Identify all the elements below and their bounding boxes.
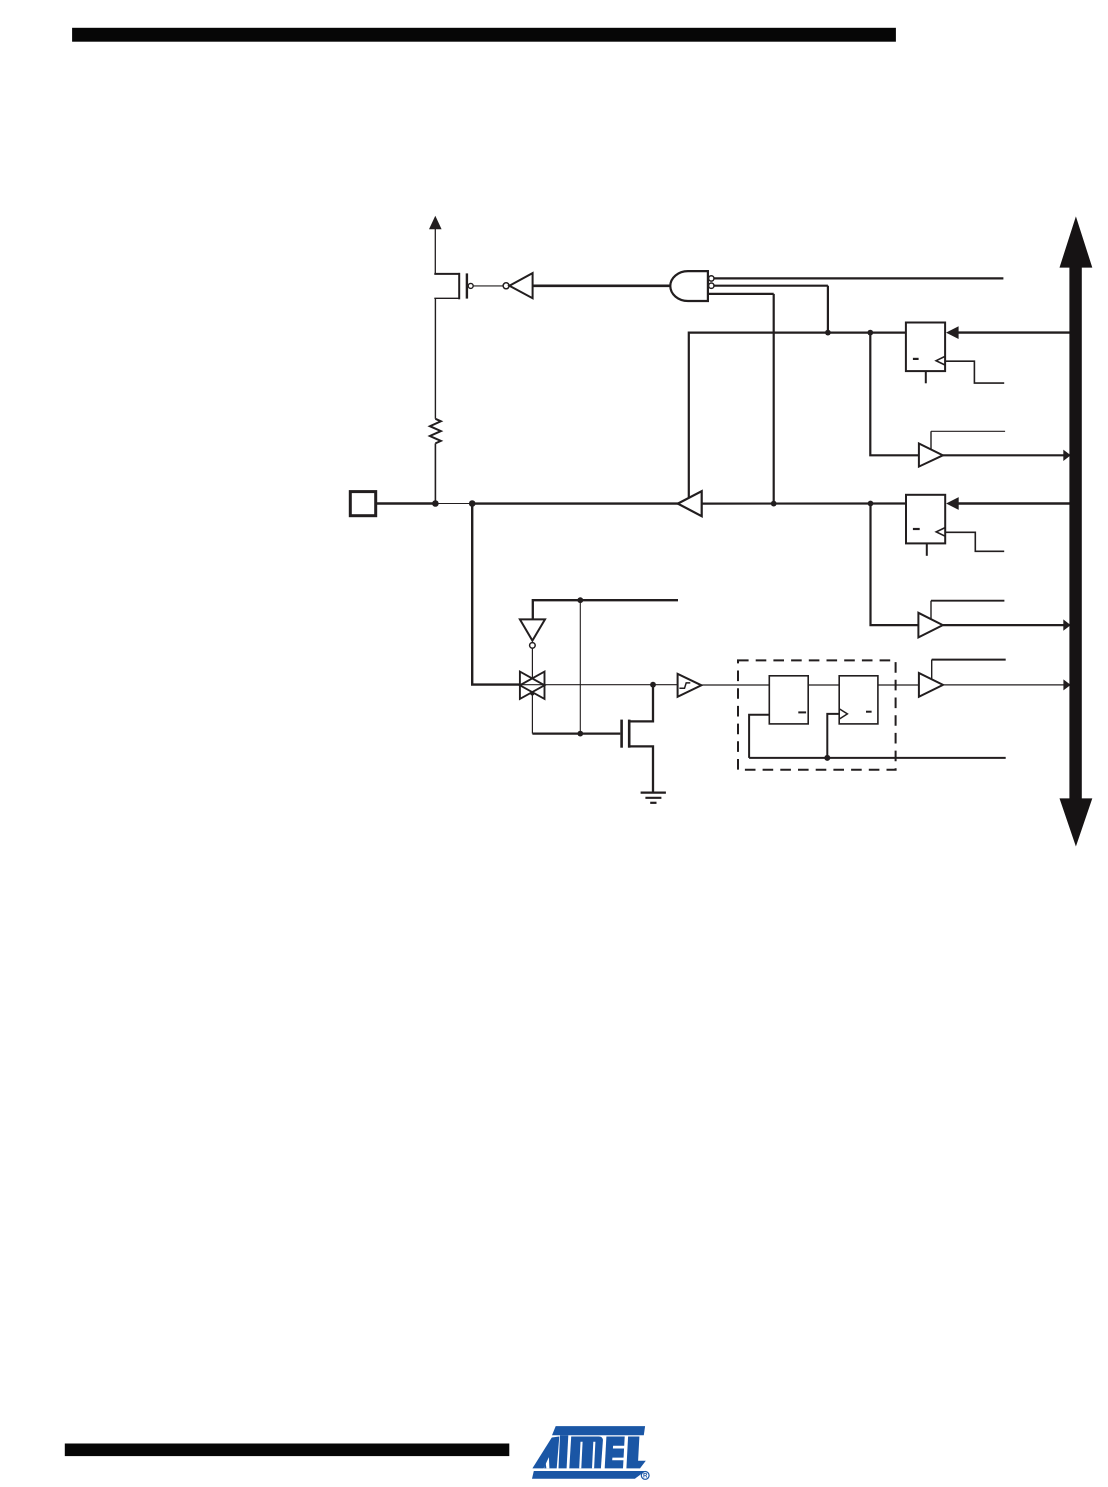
analog switch transmission gate <box>520 672 545 699</box>
data bus <box>1060 216 1093 846</box>
PORTxn Q-bar mark <box>913 528 920 530</box>
resistor R1 pull-up <box>430 419 441 444</box>
inverter U4 sleep <box>520 619 545 648</box>
L2 clock wedge <box>839 709 847 719</box>
power rail VCC arrow <box>429 216 442 230</box>
Atmel logo <box>532 1426 649 1480</box>
wire node B down to analog switch row <box>472 504 519 685</box>
wire NAND input 2 vertical <box>827 286 829 333</box>
wire NMOS gate row horizontal <box>532 732 620 734</box>
wire VCC to pull-up PMOS source <box>434 229 436 275</box>
wire analog switch to schmitt U5 <box>521 684 678 686</box>
wire U4 to analog switch <box>531 648 533 678</box>
schmitt trigger U5 <box>678 674 702 697</box>
wire analog switch to gate row <box>531 692 533 734</box>
wire L2 to read buffer U8 <box>878 684 919 686</box>
wire DDxn row: U3 enable to DD register D <box>689 333 906 498</box>
wire clk I/O <box>749 757 1006 759</box>
wire Q1 gate to inverter U2 <box>473 285 503 287</box>
wire NAND input 3 vertical <box>773 294 775 504</box>
junction G sleep row <box>577 597 583 603</box>
synchronizer boundary dashed box <box>738 660 896 769</box>
junction H NMOS gate row <box>577 731 583 737</box>
arrow U8 into data bus <box>1063 679 1070 690</box>
wire WDx DDxn clock <box>945 361 1004 383</box>
junction C PORT row to NAND input 3 <box>771 501 777 507</box>
junction D PORT row to read buffer U7 <box>868 501 874 507</box>
wire RPx stub <box>932 659 1006 661</box>
transistor Q1 pull-up PMOS <box>434 273 473 299</box>
latch L1 <box>769 676 808 724</box>
wire RRx stub <box>931 600 1004 602</box>
wire pad to node A <box>376 502 436 504</box>
read buffer U6 RDx <box>919 444 943 467</box>
arrow U6 into data bus <box>1063 450 1070 461</box>
wire RDx stub <box>931 430 1005 432</box>
wire U6 to data bus <box>943 454 1064 456</box>
register PORTxn <box>906 495 945 544</box>
wire PORT row down to read buffer U7 <box>871 504 919 626</box>
wire NAND input 3 horizontal <box>708 293 774 295</box>
wire SLEEP row <box>533 600 678 619</box>
PORTxn clock wedge <box>936 528 945 537</box>
arrow data bus to PORTxn D <box>946 497 959 510</box>
wire NAND input 2 horizontal <box>714 285 828 287</box>
junction F DD row to read buffer U6 <box>867 330 873 336</box>
svg-text:R: R <box>643 1473 648 1480</box>
read buffer U8 RPx <box>919 673 943 697</box>
DDxn reset stub <box>925 371 927 383</box>
L1 Q-bar mark <box>798 711 806 713</box>
L2 clock input wire <box>827 714 839 758</box>
wire R1 to pin node <box>434 443 436 503</box>
wire RRx enable vertical <box>930 601 932 620</box>
PORTxn reset stub <box>926 544 928 556</box>
wire Q1 drain to resistor R1 <box>434 298 436 419</box>
wire data bus to PORTxn <box>958 502 1070 504</box>
tri-state output driver U3 <box>678 491 702 516</box>
ground <box>641 793 666 803</box>
arrow data bus to DDxn D <box>946 326 959 339</box>
wire U2 input from NAND U1 output <box>533 284 671 287</box>
wire RDx enable vertical <box>930 431 932 450</box>
pad Pxn <box>350 492 375 516</box>
wire PUD NAND input 1 <box>714 277 1003 279</box>
junction I NMOS drain tap <box>650 682 656 688</box>
junction J clk line <box>824 755 830 761</box>
register DDxn <box>906 323 945 372</box>
wire U3 input from PORTxn row <box>702 502 906 504</box>
NAND gate U1 pull-up enable <box>670 271 714 301</box>
transistor Q2 NMOS <box>622 685 653 792</box>
DDxn clock wedge <box>936 356 945 365</box>
L1 clock input wire <box>749 715 769 758</box>
wire L1 to L2 <box>808 684 839 686</box>
wire U5 to synchronizer latch L1 <box>701 684 769 686</box>
wire DD row down to read buffer U6 <box>870 333 919 456</box>
junction node B <box>469 500 476 507</box>
wire node B to output driver U3 <box>472 502 678 504</box>
arrow U7 into data bus <box>1063 619 1070 630</box>
wire node A to node B <box>435 503 472 505</box>
latch L2 <box>839 676 878 724</box>
wire RPx enable vertical <box>931 660 933 680</box>
wire sleep to NMOS gate row <box>579 600 581 733</box>
wire WPx PORTxn clock <box>945 532 1004 551</box>
junction node A <box>432 500 439 507</box>
junction E DD row to NAND input 2 <box>825 330 831 336</box>
wire U8 to data bus <box>943 684 1064 686</box>
DDxn Q-bar mark <box>913 358 919 360</box>
inverter U2 pull-up driver <box>503 273 532 298</box>
wire U7 to data bus <box>943 624 1064 626</box>
wire data bus to DDxn <box>958 331 1070 333</box>
L2 Q-bar mark <box>866 711 872 713</box>
read buffer U7 RRx <box>918 613 942 638</box>
